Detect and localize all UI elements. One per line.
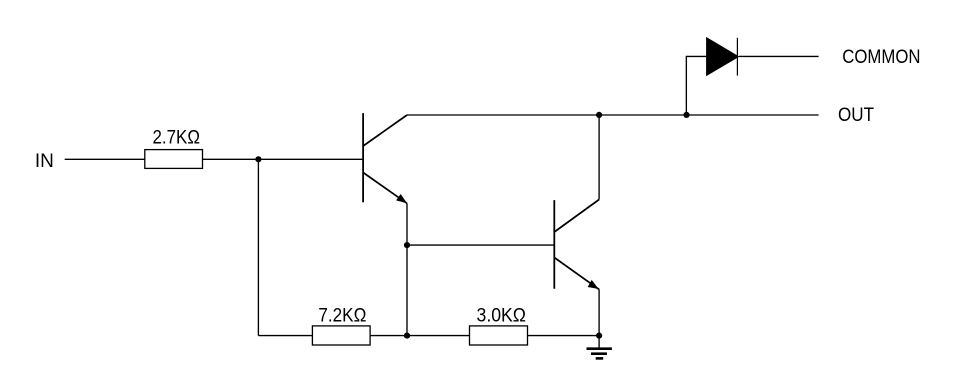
svg-text:7.2KΩ: 7.2KΩ xyxy=(318,305,366,326)
svg-text:IN: IN xyxy=(35,151,54,172)
svg-text:COMMON: COMMON xyxy=(842,47,920,68)
svg-text:OUT: OUT xyxy=(838,105,874,126)
svg-text:2.7KΩ: 2.7KΩ xyxy=(153,127,201,148)
svg-text:3.0KΩ: 3.0KΩ xyxy=(477,305,527,326)
